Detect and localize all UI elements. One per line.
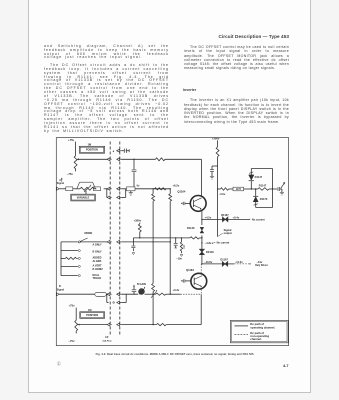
svg-text:No current: No current xyxy=(217,241,230,244)
svg-text:Q1184: Q1184 xyxy=(186,268,194,272)
footer page numbers xyxy=(57,362,61,367)
junction xyxy=(170,188,171,189)
resistor VARIABLE pot xyxy=(80,187,94,190)
arrow down -19v a xyxy=(132,253,135,255)
wire to collector node xyxy=(165,158,201,160)
wire xyxy=(75,308,77,321)
R1121 box xyxy=(127,187,136,191)
header: Circuit Description — Type 453 xyxy=(218,34,289,39)
svg-text:+300v: +300v xyxy=(212,137,220,141)
svg-text:−75v: −75v xyxy=(68,339,75,343)
wire xyxy=(217,157,219,237)
wire B row 2 xyxy=(145,293,156,295)
svg-text:TRACE: TRACE xyxy=(93,277,102,280)
svg-text:+6.2v: +6.2v xyxy=(173,288,180,292)
B GAIN trimmer xyxy=(139,289,145,295)
diode D1170 xyxy=(255,189,257,196)
mode row B ONLY xyxy=(61,250,78,252)
svg-text:A ONLY: A ONLY xyxy=(93,244,102,247)
junction xyxy=(152,188,153,189)
wire xyxy=(133,172,135,187)
No current label 2 xyxy=(212,242,213,243)
wire xyxy=(202,263,223,265)
switch wafer SW1104 left section (dashed) xyxy=(109,142,111,335)
svg-text:Signal: Signal xyxy=(57,182,65,185)
diode D1167 crossed xyxy=(222,218,225,222)
B POSITION control box xyxy=(80,312,105,319)
wire lower row 2 xyxy=(166,324,201,326)
switch wafer SW1104 right section (dashed) xyxy=(119,142,121,335)
contact link B left xyxy=(106,294,108,302)
resistor R1158 180 xyxy=(181,238,183,242)
wire B row xyxy=(121,293,138,295)
capacitor C1118 xyxy=(132,169,137,171)
svg-text:0v: 0v xyxy=(137,185,140,188)
svg-text:−4.8v: −4.8v xyxy=(205,241,212,245)
svg-text:−11.2v: −11.2v xyxy=(235,260,243,264)
legend solid sample xyxy=(235,325,249,327)
svg-text:POSITION: POSITION xyxy=(86,149,98,152)
svg-text:−75v: −75v xyxy=(67,172,74,176)
wire xyxy=(94,188,96,190)
wire row 159.3 xyxy=(121,158,155,160)
loop wire B row2 xyxy=(121,302,126,304)
arrow down -19v b xyxy=(181,251,183,253)
svg-text:D1147: D1147 xyxy=(255,175,263,179)
mode bus left xyxy=(60,242,62,276)
svg-text:D2146: D2146 xyxy=(206,250,214,254)
capacitor C1157 xyxy=(175,238,177,243)
svg-text:(1A-F1a): (1A-F1a) xyxy=(103,340,112,343)
wire + arrow no current xyxy=(228,218,249,220)
svg-text:ALGEB: ALGEB xyxy=(93,260,102,263)
diode D2167 crossed xyxy=(222,262,225,266)
contact pair row 197.4 xyxy=(107,196,110,199)
contact pair B pot row xyxy=(107,323,110,326)
svg-text:LR: LR xyxy=(105,336,108,339)
svg-text:−0.6v: −0.6v xyxy=(219,193,226,196)
svg-text:−10.6v: −10.6v xyxy=(204,260,213,264)
resistor R1101 A POSITION pot xyxy=(74,156,77,169)
svg-text:1M: 1M xyxy=(88,144,91,147)
contact pair row 159 xyxy=(107,158,110,161)
contact pair B row2 xyxy=(113,302,115,304)
svg-text:B HORIZ: B HORIZ xyxy=(93,268,104,271)
wire xyxy=(75,331,77,333)
svg-text:Q1164: Q1164 xyxy=(177,190,185,194)
wire row 188.8 right xyxy=(135,188,170,190)
capacitor C1155 xyxy=(132,238,134,246)
resistor R2126 xyxy=(156,293,166,295)
bus wire A xyxy=(133,237,190,239)
Q1164 emitter lead xyxy=(201,211,203,219)
resistor R1139 on output row xyxy=(218,188,221,190)
junction row189 xyxy=(217,188,218,189)
svg-text:operating channel.: operating channel. xyxy=(250,325,275,329)
wire x=170 down xyxy=(169,242,171,294)
svg-text:No current: No current xyxy=(252,218,265,221)
svg-text:D1146: D1146 xyxy=(187,226,195,230)
Q1164 collector lead xyxy=(200,159,202,195)
output capacitor xyxy=(277,187,279,191)
junction xyxy=(201,263,202,264)
svg-text:1M: 1M xyxy=(88,309,91,312)
right column body text xyxy=(184,45,289,74)
wire xyxy=(73,188,80,190)
svg-text:A: A xyxy=(113,150,115,153)
svg-text:POSITION: POSITION xyxy=(86,314,98,317)
resistor R1133 xyxy=(216,147,219,157)
svg-text:−19v: −19v xyxy=(176,258,182,261)
dashed to delay line xyxy=(228,263,234,265)
svg-text:D1167: D1167 xyxy=(220,258,228,262)
VARIABLE wiper stub xyxy=(85,191,87,195)
svg-text:+4.2v: +4.2v xyxy=(205,215,212,219)
svg-text:+6.2v: +6.2v xyxy=(172,184,179,188)
Q1164 base lead xyxy=(181,202,183,204)
mode row A ONLY xyxy=(61,241,78,243)
wire row 188.8 into box xyxy=(121,188,126,190)
wire +300v xyxy=(217,140,219,147)
mode row A VERT xyxy=(61,265,78,267)
svg-text:MODE: MODE xyxy=(85,231,93,235)
wire xyxy=(244,188,252,190)
contact pair B row xyxy=(107,293,110,296)
wire xyxy=(251,188,257,190)
resistor R1123 xyxy=(155,188,167,190)
legend box xyxy=(230,320,288,343)
svg-text:B ONLY: B ONLY xyxy=(93,251,103,254)
Q1184 collector lead dashed xyxy=(200,264,202,273)
A VARIABLE control box xyxy=(71,194,96,201)
left column body text xyxy=(44,45,169,137)
transistor Q1184 xyxy=(191,273,207,289)
resistor R1126 xyxy=(152,189,154,194)
B bypass cap xyxy=(133,292,135,294)
legend dashed sample xyxy=(235,334,249,336)
wire xyxy=(201,235,203,249)
resistor R1116 xyxy=(156,158,166,161)
wire xyxy=(201,255,203,264)
cap to ground off +300v line xyxy=(212,165,218,167)
figure caption xyxy=(89,353,261,356)
dashed B row to Q1184 xyxy=(180,293,201,295)
stub bar xyxy=(128,149,130,152)
svg-text:Dely Driver: Dely Driver xyxy=(255,264,268,267)
gate right wire xyxy=(272,169,274,208)
contact pair row 188.8 xyxy=(107,187,110,190)
svg-text:180: 180 xyxy=(183,244,186,249)
junctions bus A xyxy=(139,237,140,238)
wire xyxy=(201,219,203,225)
delay line box 1173 xyxy=(233,187,244,191)
input attenuator box 2 xyxy=(94,187,101,191)
contact link 188-197 left xyxy=(106,189,108,198)
diode D2146 crossed xyxy=(200,249,204,252)
junction emitter row xyxy=(201,219,202,220)
resistor R1147 xyxy=(258,188,269,191)
svg-text:D1170: D1170 xyxy=(260,197,268,201)
bypass link over VARIABLE xyxy=(77,182,80,189)
svg-text:R1147: R1147 xyxy=(259,183,267,187)
B attenuator pill xyxy=(95,292,107,296)
resistor R1154 xyxy=(139,223,141,224)
pot wiper arrow B xyxy=(78,324,80,326)
diode D1147 xyxy=(250,181,252,189)
svg-text:D1167: D1167 xyxy=(221,213,229,217)
A POSITION control box xyxy=(79,146,104,153)
svg-text:VARIABLE: VARIABLE xyxy=(77,196,90,199)
output arrow xyxy=(281,183,284,188)
resistor R2101 B POSITION pot xyxy=(75,320,78,331)
wire D1167 row xyxy=(202,218,223,220)
loop wire row 197.4 to row 188.8 xyxy=(121,196,126,198)
gate bottom wire xyxy=(256,207,273,209)
resistor R1127 xyxy=(169,189,171,194)
gate top wire xyxy=(251,168,272,170)
mode row DUAL xyxy=(61,275,78,277)
svg-text:1173: 1173 xyxy=(236,188,242,191)
svg-text:channel.: channel. xyxy=(250,337,262,341)
mode row right of wafer xyxy=(121,241,170,243)
svg-text:+300v: +300v xyxy=(134,219,142,223)
wire +75v to R1101 xyxy=(75,142,77,156)
diode D1146 xyxy=(200,227,204,230)
svg-text:+75v: +75v xyxy=(69,304,76,308)
svg-text:+75v: +75v xyxy=(68,138,75,142)
ground below box xyxy=(130,191,132,193)
wire emitter to lower row xyxy=(200,294,202,324)
wire x=153 down xyxy=(152,242,154,284)
mode row ADDED xyxy=(61,257,65,259)
output ground xyxy=(281,189,283,192)
Q1184 base lead xyxy=(181,280,183,282)
transistor Q1164 xyxy=(190,196,206,212)
junction xyxy=(133,159,134,160)
contact row 150.7 xyxy=(117,149,120,152)
resistor R1152 xyxy=(190,237,199,239)
svg-text:output: output xyxy=(224,231,232,235)
contact pair mode row xyxy=(107,240,110,243)
Q1184 emitter lead dashed xyxy=(200,289,202,294)
wire xyxy=(106,293,108,295)
wire lower row xyxy=(121,324,156,326)
wire xyxy=(166,293,181,295)
svg-text:+0.4v: +0.4v xyxy=(233,215,240,219)
pot wiper arrow A xyxy=(77,158,79,160)
svg-text:B GAIN: B GAIN xyxy=(137,283,146,286)
wire pot bottom xyxy=(75,169,77,172)
figure frame xyxy=(56,138,288,346)
svg-text:Signal: Signal xyxy=(57,288,65,291)
resistor R2128 xyxy=(156,324,166,326)
input attenuator box 1 xyxy=(66,187,73,191)
wire down from row xyxy=(133,159,135,169)
